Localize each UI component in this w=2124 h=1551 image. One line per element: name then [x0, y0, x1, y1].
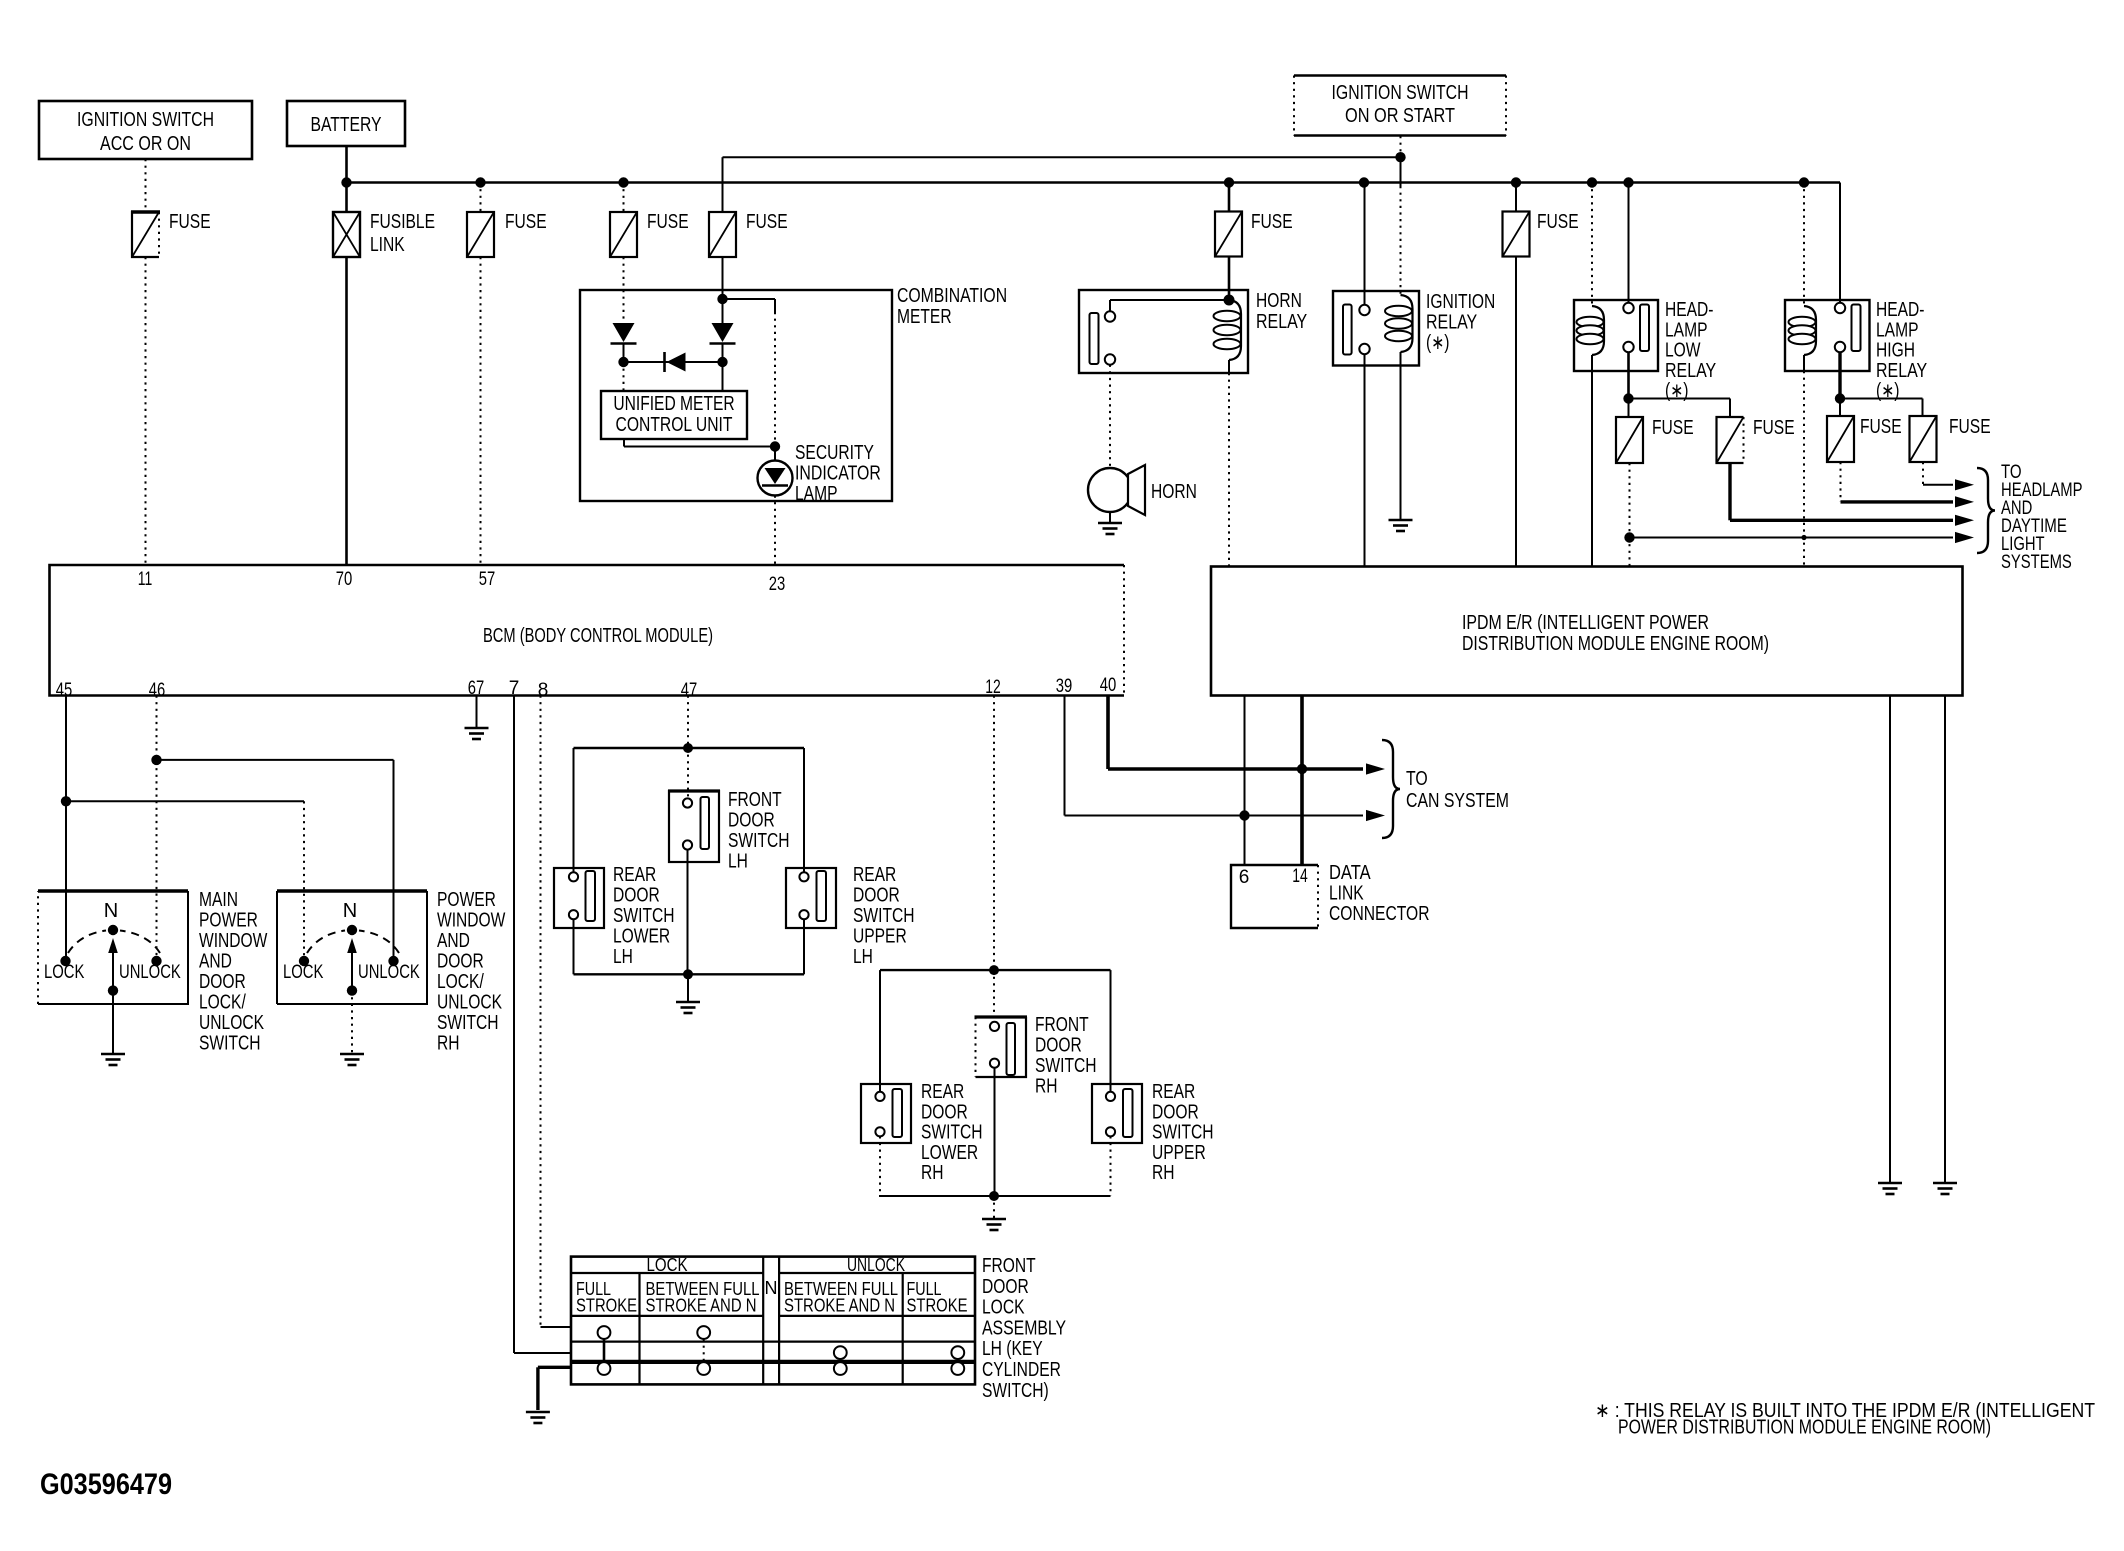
key switch contact A2	[697, 1326, 710, 1339]
wire: bus to fuse F2 (dotted)	[480, 183, 482, 213]
battery box	[287, 101, 405, 146]
node: F7 output junction	[1624, 532, 1634, 542]
svg-text:SWITCH: SWITCH	[853, 905, 915, 927]
RH switch unlock contact	[388, 956, 398, 966]
wire: pin46 branch to RH unlock	[157, 759, 394, 761]
wire: RH group bottom rail	[879, 1195, 1111, 1197]
svg-text:SWITCH: SWITCH	[437, 1012, 499, 1034]
svg-text:LAMP: LAMP	[1665, 319, 1708, 341]
svg-text:WINDOW: WINDOW	[199, 930, 267, 952]
svg-text:12: 12	[985, 677, 1001, 698]
svg-text:FUSE: FUSE	[1537, 211, 1579, 233]
wire: F9 to arrow 2 (dotted then bold)	[1840, 462, 1842, 502]
table column divider 1	[638, 1273, 640, 1384]
svg-text:14: 14	[1292, 866, 1308, 887]
wire: BCM pin 46 to unlock contact (dotted)	[156, 696, 158, 957]
wire: F7 junction to IPDM (dotted)	[1629, 538, 1631, 567]
front door switch LH box	[669, 791, 719, 862]
RH switch common arrow	[351, 953, 353, 991]
ignition relay box	[1333, 291, 1419, 366]
arrow 2	[1955, 496, 1974, 507]
svg-text:METER: METER	[897, 306, 952, 328]
diode D1	[613, 323, 635, 342]
svg-text:LOWER: LOWER	[921, 1142, 978, 1164]
wire: BCM pin 47 to LH door switches (dotted)	[687, 696, 689, 749]
key switch connector col2 (dotted)	[703, 1339, 705, 1362]
svg-text:DOOR: DOOR	[921, 1101, 968, 1123]
svg-text:SWITCH: SWITCH	[921, 1122, 983, 1144]
unified meter control unit box	[601, 391, 747, 439]
RH switch arc lock (dashed)	[307, 931, 345, 954]
ground: BCM pin 67	[465, 727, 489, 730]
wire: high relay coil to IPDM (dotted)	[1803, 371, 1805, 567]
main switch arc unlock (dashed)	[120, 931, 160, 954]
ground: IPDM 1	[1878, 1182, 1902, 1185]
svg-text:DOOR: DOOR	[1152, 1101, 1199, 1123]
svg-text:BATTERY: BATTERY	[311, 114, 382, 136]
horn	[1088, 468, 1132, 512]
key switch contact C1	[598, 1362, 611, 1375]
wire: RH rail right drop	[1110, 970, 1112, 1092]
ground: main switch	[101, 1053, 125, 1056]
wire: RDS upper LH to bottom rail	[803, 919, 805, 974]
svg-text:HORN: HORN	[1151, 481, 1197, 503]
svg-text:LH: LH	[613, 946, 633, 968]
svg-text:6: 6	[1239, 867, 1250, 888]
wire: FDS-RH to bottom rail	[994, 1068, 996, 1196]
main switch common node	[108, 985, 118, 995]
wire: D1 to junction	[623, 344, 625, 363]
table row line	[571, 1340, 975, 1342]
node: bus junction at fuse F2	[475, 177, 485, 187]
wire: RDS lower LH to bottom rail	[573, 919, 575, 974]
svg-text:LINK: LINK	[370, 234, 405, 256]
svg-text:SYSTEMS: SYSTEMS	[2001, 552, 2072, 573]
fuse F7	[1616, 417, 1643, 463]
fuse F4	[709, 212, 736, 257]
wire: F1 to BCM pin 11 (dotted)	[145, 257, 147, 565]
svg-text:RELAY: RELAY	[1256, 311, 1307, 333]
wire: F8 to arrow 3 (bold)	[1728, 463, 1731, 520]
wire: LH group to ground	[687, 974, 689, 1001]
wire: IPDM to DLC pin 14 (bold)	[1300, 696, 1304, 866]
wire: RDS upper RH to bottom rail (dotted)	[1110, 1136, 1112, 1196]
key switch contact B4	[951, 1346, 964, 1359]
horn relay coil	[1229, 300, 1241, 360]
wire: fusible link to BCM pin 70	[345, 257, 348, 565]
svg-text:IGNITION SWITCH: IGNITION SWITCH	[1332, 82, 1469, 104]
key switch contact C2	[697, 1362, 710, 1375]
main switch lock contact	[60, 956, 70, 966]
svg-text:57: 57	[479, 569, 496, 590]
svg-text:CYLINDER: CYLINDER	[982, 1359, 1061, 1381]
svg-text:CONTROL UNIT: CONTROL UNIT	[616, 414, 733, 436]
svg-text:LOCK: LOCK	[283, 962, 324, 983]
security indicator lamp	[758, 461, 793, 496]
node: D2 output	[717, 357, 727, 367]
high relay contact slot	[1852, 305, 1861, 352]
svg-text:COMBINATION: COMBINATION	[897, 285, 1007, 307]
svg-text:FRONT: FRONT	[728, 789, 782, 811]
wire: RH rail left drop	[879, 970, 881, 1092]
ignition relay contact terminals	[1359, 305, 1369, 315]
front door switch RH box	[976, 1017, 1027, 1077]
ignition switch ACC-or-ON box	[39, 101, 252, 159]
node: bus junction fuse F6	[1511, 177, 1521, 187]
svg-text:ASSEMBLY: ASSEMBLY	[982, 1317, 1066, 1339]
svg-text:FUSIBLE: FUSIBLE	[370, 211, 435, 233]
horn relay contact slot	[1090, 313, 1099, 364]
svg-text:RH: RH	[437, 1033, 460, 1055]
svg-text:INDICATOR: INDICATOR	[795, 463, 881, 485]
wire: FDS-LH to bottom rail	[687, 850, 689, 975]
svg-text:RH: RH	[1035, 1076, 1058, 1098]
headlamp high relay box	[1785, 300, 1870, 371]
fuse F9	[1827, 416, 1854, 462]
rear door switch upper LH box	[786, 868, 836, 928]
svg-text:LOCK: LOCK	[982, 1297, 1025, 1319]
svg-text:UPPER: UPPER	[1152, 1142, 1206, 1164]
headlamp low relay box	[1574, 300, 1658, 371]
wire: BCM pin 8 to key cylinder switch (dotted)	[540, 696, 542, 1328]
node: low relay fuse junction	[1623, 393, 1633, 403]
svg-text:FUSE: FUSE	[1652, 417, 1694, 439]
front door switch RH terminals	[990, 1022, 999, 1031]
node: security lamp feed	[770, 441, 780, 451]
fuse F5 (horn)	[1215, 212, 1242, 257]
node: bus junction at fuse F3	[618, 177, 628, 187]
ground: key cylinder switch	[526, 1411, 550, 1414]
wire: RDS lower RH to bottom rail (dotted)	[879, 1136, 881, 1196]
svg-text:STROKE: STROKE	[907, 1296, 968, 1316]
key switch contact C3	[834, 1362, 847, 1375]
wire: down to RH unlock contact	[393, 760, 395, 956]
svg-text:SWITCH: SWITCH	[1152, 1122, 1214, 1144]
ground: RH switch	[340, 1053, 364, 1056]
svg-text:HIGH: HIGH	[1876, 340, 1915, 362]
svg-text:LOCK: LOCK	[44, 962, 85, 983]
svg-text:40: 40	[1100, 675, 1117, 696]
svg-text:70: 70	[336, 569, 353, 590]
svg-text:LH: LH	[853, 946, 873, 968]
wire: down to ignition relay coil (dotted)	[1400, 186, 1402, 295]
wire: junction to D2	[722, 299, 724, 323]
main switch common arrow	[112, 953, 114, 991]
wire: horn relay contact to horn (dotted)	[1109, 365, 1111, 468]
wire: F3 to diode D1 (dotted)	[623, 257, 625, 322]
wire: F7 to arrow junction (dotted)	[1629, 463, 1631, 538]
svg-text:LOW: LOW	[1665, 340, 1701, 362]
wire: bus to ignition relay contact	[1364, 183, 1366, 305]
wire: BCM pin 12 to RH door switches (dotted)	[993, 696, 995, 971]
svg-text:SECURITY: SECURITY	[795, 442, 874, 464]
BCM (body control module) box	[50, 565, 1125, 696]
main switch arc lock (dashed)	[68, 931, 106, 954]
table centre double divider	[762, 1257, 764, 1385]
svg-text:FUSE: FUSE	[505, 211, 547, 233]
svg-text:FUSE: FUSE	[647, 211, 689, 233]
wire: F10 to arrow 1 (dotted)	[1922, 462, 1924, 485]
rear door switch upper RH terminals	[1106, 1092, 1115, 1101]
svg-text:AND: AND	[437, 930, 470, 952]
svg-text:LH: LH	[728, 851, 748, 873]
table bold row line	[571, 1360, 975, 1364]
arrow 4	[1955, 532, 1974, 543]
wire: junction down across bus	[1400, 157, 1402, 186]
svg-text:LOCK: LOCK	[647, 1255, 688, 1275]
table header line 2	[571, 1315, 763, 1317]
RH switch common node	[347, 985, 357, 995]
node: RH door switch junction	[989, 965, 999, 975]
svg-text:FUSE: FUSE	[1949, 416, 1991, 438]
wire: horizontal line to ignition switch ON/START	[723, 156, 1401, 158]
svg-text:STROKE AND N: STROKE AND N	[646, 1296, 757, 1316]
data link connector box	[1231, 865, 1318, 928]
svg-text:46: 46	[149, 680, 166, 701]
wire: IPDM to DLC pin 6	[1244, 696, 1246, 866]
svg-text:REAR: REAR	[613, 864, 656, 886]
arrow CAN-H	[1366, 763, 1385, 774]
diode D3 (pointing left)	[663, 352, 666, 372]
diode D2	[712, 323, 734, 342]
rear door switch upper LH slot	[817, 871, 827, 921]
wire: LH rail right drop	[803, 748, 805, 872]
wire: down to RH lock contact (dotted)	[303, 801, 305, 956]
svg-text:8: 8	[538, 680, 549, 701]
wire: horn relay internal link	[1109, 300, 1111, 311]
key switch contact B3	[834, 1346, 847, 1359]
rear door switch upper LH terminals	[799, 872, 808, 881]
svg-text:DOOR: DOOR	[613, 885, 660, 907]
svg-text:IGNITION: IGNITION	[1426, 291, 1495, 313]
node: F4 branch junction	[717, 294, 727, 304]
wire: LH rail left drop	[573, 748, 575, 872]
svg-text:POWER: POWER	[437, 889, 496, 911]
rear door switch lower RH slot	[893, 1089, 903, 1137]
node: bus junction low-relay coil	[1587, 177, 1597, 187]
svg-text:RELAY: RELAY	[1876, 360, 1927, 382]
wire: high relay contact to fuse junction (bold)	[1838, 352, 1841, 398]
node: battery junction	[341, 177, 351, 187]
svg-text:45: 45	[56, 680, 73, 701]
wire: junction to fuse F10	[1840, 398, 1923, 400]
node: horn relay coil junction	[1224, 295, 1235, 306]
node: crossing dot arrow4	[1801, 535, 1806, 540]
wire: key cylinder common to ground (bold)	[538, 1366, 571, 1369]
svg-text:IGNITION SWITCH: IGNITION SWITCH	[77, 109, 214, 131]
wire: D2 node to meter unit	[722, 362, 724, 391]
svg-text:ON OR START: ON OR START	[1345, 105, 1455, 127]
svg-text:DATA: DATA	[1329, 862, 1371, 884]
svg-text:REAR: REAR	[921, 1081, 964, 1103]
svg-text:FUSE: FUSE	[1251, 211, 1293, 233]
svg-text:47: 47	[681, 680, 698, 701]
wire: bus to fuse F6	[1515, 183, 1517, 212]
wire: ignition relay coil to ground	[1400, 366, 1402, 520]
svg-text:DOOR: DOOR	[199, 971, 246, 993]
svg-text:11: 11	[138, 569, 153, 590]
ground: LH door switches	[676, 1001, 700, 1004]
ground: horn	[1109, 512, 1111, 522]
svg-text:DOOR: DOOR	[728, 810, 775, 832]
wire: ON/START box to junction (dotted)	[1400, 136, 1402, 157]
key switch connector col4	[957, 1359, 959, 1362]
ground: RH door switches	[982, 1218, 1006, 1221]
node: pin45 branch	[61, 796, 71, 806]
wire: RH switch to ground (dotted)	[351, 991, 353, 1053]
key switch contact A1	[598, 1326, 611, 1339]
node: bus junction high-relay coil	[1799, 177, 1809, 187]
wire: F2 to BCM pin 57 (dotted)	[480, 257, 482, 565]
node: CAN-H junction	[1297, 764, 1307, 774]
wire: bus to fuse F3 (dotted)	[623, 183, 625, 213]
RH switch arc unlock (dashed)	[359, 931, 399, 954]
wire: bus to fusible link	[345, 183, 348, 213]
svg-text:LINK: LINK	[1329, 883, 1364, 905]
wire: D2 to junction	[722, 344, 724, 363]
wire: BCM pin 67 to ground	[476, 696, 478, 728]
svg-text:POWER: POWER	[199, 910, 258, 932]
front door switch RH slot	[1007, 1023, 1016, 1075]
svg-text:SWITCH: SWITCH	[728, 830, 790, 852]
wire: cross link D1-D2	[624, 361, 723, 363]
node: bus junction low-relay contact	[1623, 177, 1633, 187]
svg-text:ACC OR ON: ACC OR ON	[100, 133, 191, 155]
wire: bus to high relay coil (dotted)	[1803, 183, 1805, 307]
svg-text:CAN SYSTEM: CAN SYSTEM	[1406, 790, 1509, 812]
key switch connector col3	[839, 1359, 841, 1362]
node: bus junction horn fuse	[1224, 177, 1234, 187]
svg-text:LOCK/: LOCK/	[437, 971, 484, 993]
ground: ignition relay	[1389, 519, 1413, 522]
svg-text:SWITCH: SWITCH	[613, 905, 675, 927]
svg-text:REAR: REAR	[1152, 1081, 1195, 1103]
low relay contact terminals	[1623, 303, 1633, 313]
IPDM E/R box	[1211, 567, 1963, 696]
wire: BCM pin 45 to lock contact	[65, 696, 67, 957]
wire: main switch to ground	[112, 991, 114, 1053]
svg-text:DOOR: DOOR	[982, 1276, 1029, 1298]
horn relay box	[1079, 290, 1248, 373]
rear door switch lower LH slot	[586, 871, 596, 921]
wire: F4 down into combination meter	[722, 257, 724, 299]
wire: horn relay coil to IPDM (dotted)	[1228, 373, 1230, 567]
node: LH door switch junction	[683, 743, 693, 753]
wire: BCM pin 7 to key cylinder switch	[513, 696, 515, 1354]
svg-text:FUSE: FUSE	[1753, 417, 1795, 439]
fuse F1 (ignition ACC feed)	[132, 212, 159, 257]
fuse F8	[1717, 417, 1744, 463]
svg-text:STROKE AND N: STROKE AND N	[784, 1296, 895, 1316]
svg-text:FUSE: FUSE	[1860, 416, 1902, 438]
node: pin46 branch	[151, 755, 161, 765]
wire: low relay coil to IPDM	[1591, 371, 1593, 567]
arrow 1	[1955, 479, 1974, 490]
power bus wire	[347, 181, 1841, 184]
key switch contact C4	[951, 1362, 964, 1375]
svg-text:G03596479: G03596479	[40, 1468, 172, 1501]
power window switch RH box	[277, 889, 427, 893]
svg-text:HEAD-: HEAD-	[1876, 299, 1925, 321]
svg-text:UNLOCK: UNLOCK	[358, 962, 420, 983]
fuse F6	[1503, 212, 1530, 257]
wire: junction to FDS-RH (dotted)	[993, 970, 995, 1021]
svg-text:RELAY: RELAY	[1665, 360, 1716, 382]
svg-text:DOOR: DOOR	[437, 951, 484, 973]
ignition relay coil	[1401, 295, 1413, 352]
fuse F10	[1910, 416, 1937, 462]
wire: F5 to horn relay	[1228, 257, 1231, 301]
wire: low relay contact to fuse junction	[1627, 352, 1630, 398]
ignition switch ON-or-START box	[1294, 76, 1506, 136]
table column divider 2	[902, 1273, 904, 1384]
svg-text:SWITCH: SWITCH	[1035, 1055, 1097, 1077]
key cylinder switch table frame	[571, 1257, 975, 1385]
svg-text:LAMP: LAMP	[795, 483, 838, 505]
svg-text:N: N	[765, 1278, 778, 1298]
svg-text:UNLOCK: UNLOCK	[199, 1012, 265, 1034]
svg-text:UNLOCK: UNLOCK	[119, 962, 181, 983]
brace to headlamp systems	[1977, 468, 1995, 553]
rear door switch upper RH box	[1092, 1084, 1142, 1143]
main switch unlock contact	[151, 956, 161, 966]
wire: junction to fuse F8	[1629, 398, 1731, 400]
low relay coil	[1592, 306, 1604, 355]
svg-text:IPDM E/R (INTELLIGENT POWER: IPDM E/R (INTELLIGENT POWER	[1462, 612, 1709, 634]
node: ignition start junction	[1395, 152, 1405, 162]
wire: battery to bus	[345, 146, 348, 183]
wire: lamp to BCM pin 23 (dotted)	[774, 496, 776, 566]
svg-text:N: N	[343, 900, 357, 922]
svg-text:FRONT: FRONT	[982, 1255, 1036, 1277]
svg-text:LH (KEY: LH (KEY	[982, 1338, 1043, 1360]
main power window switch box	[38, 889, 188, 893]
table header line 1	[571, 1272, 763, 1274]
svg-text:LAMP: LAMP	[1876, 319, 1919, 341]
svg-text:UNLOCK: UNLOCK	[847, 1255, 905, 1275]
front door switch LH terminals	[683, 798, 692, 807]
wire: LH group top rail	[574, 747, 805, 749]
wire: junction to fuse F9	[1839, 399, 1841, 417]
low relay contact slot	[1640, 305, 1649, 352]
main switch pivot	[108, 925, 118, 935]
wire: ACC box to fuse F1 (dotted)	[145, 159, 147, 212]
fuse F2	[467, 212, 494, 257]
svg-text:RELAY: RELAY	[1426, 312, 1477, 334]
rear door switch lower LH terminals	[569, 872, 578, 881]
svg-text:(∗): (∗)	[1426, 332, 1450, 354]
wire: LH group bottom rail	[574, 973, 805, 975]
wire: bus to low relay contact	[1628, 183, 1630, 303]
wire: to headlamp systems arrow 4	[1630, 537, 1954, 539]
rear door switch lower RH box	[861, 1084, 911, 1143]
wire: bus end to high relay contact	[1839, 183, 1841, 303]
svg-text:UNLOCK: UNLOCK	[437, 992, 503, 1014]
high relay coil	[1804, 306, 1816, 355]
svg-text:FRONT: FRONT	[1035, 1014, 1089, 1036]
node: CAN-L junction	[1239, 810, 1249, 820]
node: bus junction ignition relay	[1359, 177, 1369, 187]
svg-text:HEAD-: HEAD-	[1665, 299, 1714, 321]
wire: junction into lamp	[774, 447, 776, 462]
horn relay contact terminals	[1105, 311, 1115, 321]
wire: fuse F4 up to ignition-start line	[722, 157, 724, 212]
brace to CAN system	[1382, 740, 1400, 838]
wire: BCM pin 39 to CAN-L	[1064, 696, 1066, 816]
ground: IPDM 2	[1933, 1182, 1957, 1185]
RH switch lock contact	[299, 956, 309, 966]
wire: pin45 branch to RH lock	[66, 800, 304, 802]
